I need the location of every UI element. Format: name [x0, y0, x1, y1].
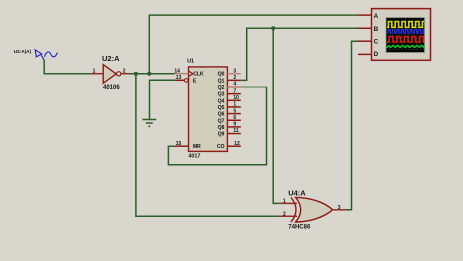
U1 body (4017) [189, 67, 228, 151]
ground [142, 120, 156, 127]
wire inverter output to U1 CLK [129, 73, 175, 75]
svg-text:7: 7 [233, 88, 236, 94]
wire Q2 horizontal (light) [241, 86, 267, 88]
wire down to XOR input 2 [136, 74, 280, 217]
XOR pin 2 stub [280, 215, 297, 217]
svg-text:11: 11 [233, 128, 239, 134]
svg-text:U1: U1 [187, 59, 194, 65]
svg-text:U4:A: U4:A [288, 189, 306, 198]
yellow trace channel A [387, 22, 424, 28]
svg-text:Q2: Q2 [218, 85, 225, 91]
svg-text:Q6: Q6 [218, 112, 225, 118]
U1 Q0 pin stub (pin 3) [227, 73, 240, 75]
svg-text:13: 13 [176, 75, 182, 81]
svg-text:Q0: Q0 [218, 72, 225, 78]
svg-text:Q1: Q1 [218, 78, 225, 84]
svg-text:E: E [193, 78, 197, 84]
inverter triangle [103, 65, 116, 84]
inverter pin 2 stub [121, 73, 129, 75]
oscilloscope body [372, 9, 431, 61]
E pin bubble [184, 79, 188, 83]
svg-text:Q7: Q7 [218, 118, 225, 124]
U1 Q9 pin stub (pin 11) [227, 133, 240, 135]
svg-text:C: C [374, 38, 379, 45]
svg-text:6: 6 [233, 115, 236, 121]
scope pin A stub [358, 14, 372, 16]
wire up and right to scope channel A [149, 15, 358, 74]
blue trace channel B [387, 30, 424, 33]
svg-text:U2:A(A): U2:A(A) [14, 49, 32, 55]
U1 CO pin stub (pin 12) [227, 145, 240, 147]
inverter bubble [117, 72, 121, 76]
svg-text:5: 5 [233, 108, 236, 114]
svg-text:U2:A: U2:A [102, 54, 120, 63]
svg-text:MR: MR [193, 144, 201, 150]
U1 Q2 pin stub (pin 4) [227, 86, 240, 88]
wire Q2 down, left and up to MR [168, 87, 266, 165]
U1 Q4 pin stub (pin 10) [227, 99, 240, 101]
U1 CLK pin stub (pin 14) [175, 73, 189, 75]
svg-text:Q3: Q3 [218, 92, 225, 98]
svg-text:B: B [374, 26, 379, 33]
wire Q1 to scope channel B [241, 28, 358, 80]
junction dot B (to scope A) [147, 72, 151, 76]
svg-text:Q4: Q4 [218, 98, 225, 104]
U1 Q8 pin stub (pin 9) [227, 126, 240, 128]
U1 Q3 pin stub (pin 7) [227, 93, 240, 95]
svg-text:A: A [374, 13, 379, 20]
XOR pin 1 stub [280, 202, 297, 204]
wire generator to inverter input [44, 60, 90, 73]
svg-text:3: 3 [233, 68, 236, 74]
svg-text:15: 15 [176, 141, 182, 147]
U1 MR pin stub (pin 15) [175, 145, 189, 147]
scope screen [386, 18, 425, 53]
svg-text:Q9: Q9 [218, 132, 225, 138]
U1 E pin stub (pin 13) [176, 79, 185, 81]
svg-text:1: 1 [233, 102, 236, 108]
svg-text:D: D [374, 51, 379, 58]
wire XOR output to scope channel C [346, 41, 358, 210]
svg-text:9: 9 [233, 122, 236, 128]
svg-text:Q8: Q8 [218, 125, 225, 131]
wire U1 E pin to ground [150, 80, 176, 119]
scope pin C stub [358, 40, 372, 42]
svg-text:Q5: Q5 [218, 105, 225, 111]
svg-text:40106: 40106 [103, 85, 120, 91]
generator symbol [35, 50, 57, 61]
XOR input double arc [291, 197, 296, 222]
svg-text:12: 12 [234, 141, 240, 147]
junction dot C (channel B to XOR input 1) [271, 26, 275, 30]
screen graticule [386, 18, 425, 53]
svg-text:10: 10 [233, 95, 239, 101]
U1 Q7 pin stub (pin 6) [227, 119, 240, 121]
svg-text:CO: CO [217, 144, 225, 150]
svg-text:4017: 4017 [188, 154, 200, 160]
svg-text:74HC86: 74HC86 [288, 225, 311, 231]
svg-text:14: 14 [174, 68, 180, 74]
scope pin D stub (unconnected) [358, 53, 372, 55]
junction dot A (to XOR input 2) [134, 72, 138, 76]
CLK chevron [189, 71, 193, 76]
U1 Q1 pin stub (pin 2) [227, 79, 240, 81]
svg-text:2: 2 [233, 75, 236, 81]
svg-text:CLK: CLK [193, 72, 204, 78]
wire down to XOR input 1 [273, 28, 280, 203]
inverter pin 1 stub [90, 73, 103, 75]
XOR output stub [333, 209, 346, 211]
red trace channel C [387, 37, 424, 42]
svg-text:1: 1 [93, 68, 96, 74]
scope pin B stub [358, 27, 372, 29]
svg-text:4: 4 [233, 82, 236, 88]
U1 Q5 pin stub (pin 1) [227, 106, 240, 108]
green trace channel D [387, 46, 425, 49]
U1 Q6 pin stub (pin 5) [227, 113, 240, 115]
XOR gate body [296, 197, 333, 222]
